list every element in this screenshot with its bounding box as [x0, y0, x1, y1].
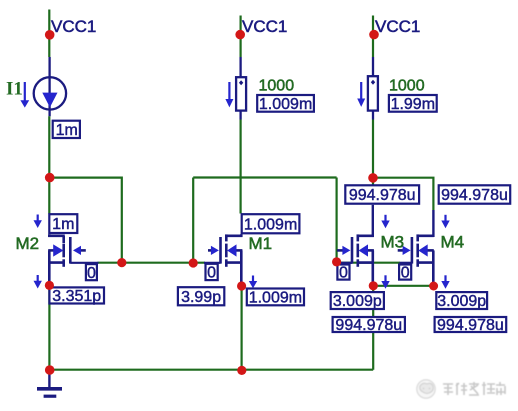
- svg-text:1000: 1000: [259, 78, 295, 95]
- arrow M2 drain current: [37, 215, 39, 222]
- value box M3 3.009p: [331, 292, 384, 309]
- node A (I1/M2 drain): [45, 173, 55, 183]
- svg-text:VCC1: VCC1: [375, 17, 420, 36]
- node M2 source: [45, 281, 54, 290]
- svg-text:0: 0: [87, 265, 96, 282]
- node VCC1 col2: [235, 30, 245, 40]
- value box M3 gate 0: [337, 265, 349, 280]
- svg-text:0: 0: [401, 265, 410, 282]
- svg-text:1.99m: 1.99m: [391, 96, 435, 113]
- transistor M2 gate arrow: [73, 246, 81, 255]
- wire I1 lead (through source): [48, 57, 50, 116]
- wire M4 drain lead: [432, 210, 434, 237]
- node gate bus left: [117, 258, 126, 267]
- value box R1 1.009m: [257, 95, 314, 112]
- wire col3 mid: [372, 120, 374, 185]
- svg-text:1m: 1m: [52, 216, 74, 233]
- wire M4 drain link: [373, 178, 433, 210]
- transistor M4 bulk arrow: [418, 244, 427, 256]
- arrow R2 current: [360, 82, 362, 99]
- node VCC1 col3: [369, 30, 379, 40]
- value box R2 1.99m: [389, 95, 437, 112]
- svg-text:0: 0: [339, 265, 348, 282]
- transistor M2 bulk arrow: [53, 244, 63, 256]
- value box I1 1m: [53, 121, 80, 138]
- wire gate drop to M3: [336, 178, 338, 262]
- resistor R1: [236, 77, 246, 110]
- svg-text:3.009p: 3.009p: [333, 293, 382, 310]
- svg-text:994.978u: 994.978u: [441, 187, 508, 204]
- svg-text:M3: M3: [381, 233, 405, 252]
- wire M1 source: [241, 286, 243, 370]
- transistor M3 gate arrow: [342, 246, 350, 255]
- svg-text:1m: 1m: [56, 122, 78, 139]
- svg-text:M1: M1: [249, 234, 273, 253]
- transistor M1 gate arrow: [211, 246, 219, 255]
- value box M1 gate 0: [206, 264, 218, 280]
- current source I1: [34, 77, 66, 109]
- value box M3 drain 994.978u: [345, 185, 419, 203]
- wire R2 top lead: [372, 57, 374, 77]
- arrow M4 drain current: [444, 215, 446, 222]
- arrow M3 drain current: [384, 215, 386, 222]
- node ground: [45, 365, 55, 375]
- node M1 source: [237, 281, 246, 290]
- value box M4 drain 994.978u: [439, 185, 511, 203]
- arrow M2 source current: [37, 275, 39, 282]
- svg-text:3.99p: 3.99p: [181, 289, 221, 306]
- value box M3 source 994.978u: [333, 317, 405, 332]
- svg-text:3.351p: 3.351p: [52, 288, 101, 305]
- transistor M2: [48, 234, 98, 286]
- watermark icon: [417, 380, 435, 398]
- node VCC1 col1: [45, 30, 55, 40]
- value box M4 3.009p: [436, 292, 487, 309]
- transistor M4 gate arrow: [403, 246, 411, 255]
- wire VCC1 col1 top: [48, 10, 50, 58]
- svg-text:994.978u: 994.978u: [335, 317, 402, 334]
- node M4 source: [429, 282, 438, 291]
- wire col1 mid: [48, 116, 50, 213]
- wire R1 bottom lead: [239, 111, 241, 120]
- wire ground rail: [49, 369, 373, 371]
- arrow M1 source current: [252, 276, 254, 282]
- wire gate bus right (to M4 gate): [337, 262, 400, 264]
- wire M2 source: [48, 285, 50, 369]
- value box M2 3.351p: [49, 287, 104, 303]
- wire gate bus upper: [193, 176, 336, 178]
- svg-text:0: 0: [207, 265, 216, 282]
- wire col2 mid (crosses gate bus): [240, 120, 242, 214]
- value box M2 gate 0: [86, 264, 97, 280]
- wire VCC1 col2 top: [240, 16, 242, 58]
- resistor R2: [368, 76, 378, 110]
- node M1 gate: [189, 258, 198, 267]
- svg-text:994.978u: 994.978u: [437, 317, 504, 334]
- arrow I1 current: [24, 82, 26, 101]
- svg-text:VCC1: VCC1: [242, 17, 287, 36]
- wire gate riser: [192, 178, 194, 263]
- node rail M1: [237, 366, 246, 375]
- wire source link M3-M4: [373, 285, 433, 287]
- svg-text:1.009m: 1.009m: [249, 290, 302, 307]
- value box M1 source 1.009m: [247, 289, 304, 306]
- arrow M4 source current: [444, 275, 446, 282]
- transistor M1 bulk arrow: [227, 244, 236, 256]
- value box M4 source 994.978u: [435, 317, 507, 332]
- node M3 source: [369, 281, 378, 290]
- svg-text:M2: M2: [16, 234, 40, 253]
- wire VCC1 col3 top: [372, 16, 374, 58]
- arrow R1 current: [228, 82, 230, 100]
- svg-text:994.978u: 994.978u: [349, 187, 416, 204]
- wire R2 bottom lead: [372, 111, 374, 120]
- svg-text:I1: I1: [6, 79, 23, 100]
- wire node A loop: [49, 178, 122, 263]
- transistor M1: [204, 234, 242, 286]
- value box M4 gate 0: [399, 265, 411, 280]
- ground: [48, 370, 50, 387]
- wire M3 source: [372, 286, 374, 370]
- value box M1 drain 1.009m: [242, 214, 300, 233]
- wire gate bus: [98, 262, 206, 264]
- svg-text:M4: M4: [441, 233, 465, 252]
- node R2/M3 drain: [368, 173, 378, 183]
- svg-text:1000: 1000: [389, 78, 425, 95]
- svg-text:VCC1: VCC1: [51, 17, 96, 36]
- transistor M4: [398, 234, 434, 286]
- node M3 gate: [332, 257, 341, 266]
- transistor M3 bulk arrow: [359, 244, 368, 256]
- value box M1 3.99p: [178, 287, 224, 305]
- watermark text: [443, 382, 505, 395]
- wire R1 top lead: [239, 57, 241, 77]
- svg-text:3.009p: 3.009p: [437, 293, 486, 310]
- svg-text:1.009m: 1.009m: [259, 96, 312, 113]
- wire M3 drain lead: [372, 205, 374, 237]
- arrow M3 source current: [384, 275, 386, 282]
- transistor M3: [337, 234, 374, 286]
- value box M2 1m: [49, 214, 77, 233]
- svg-text:1.009m: 1.009m: [244, 216, 297, 233]
